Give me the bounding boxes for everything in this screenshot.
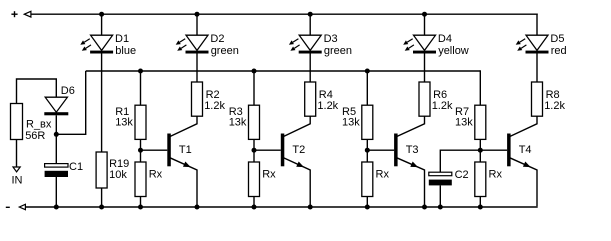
LED D3 (green) — [289, 35, 322, 53]
wire R5 to Rx — [366, 139, 368, 162]
resistor R19 — [96, 152, 107, 188]
wire mid rail to R5 — [366, 71, 368, 105]
wire R_vx top to D6 anode — [17, 79, 57, 104]
svg-text:D5: D5 — [550, 33, 564, 45]
wire bias node to mid rail — [56, 71, 85, 134]
svg-text:1.2k: 1.2k — [204, 100, 225, 112]
wire Rx to bottom rail — [366, 197, 368, 208]
svg-text:T2: T2 — [292, 144, 305, 156]
wire top rail to D3 — [309, 14, 311, 35]
resistor R4 1.2k — [305, 82, 316, 116]
LED D1 (blue) — [80, 35, 113, 53]
terminal - (negative supply) — [6, 204, 26, 209]
junction mid rail / R3 — [252, 69, 257, 74]
resistor R8 1.2k — [532, 82, 543, 116]
terminal IN — [13, 167, 20, 172]
wire R7 to Rx — [479, 139, 481, 162]
transistor T4 (NPN) — [507, 116, 537, 206]
junction mid rail / R5 — [365, 69, 370, 74]
svg-text:red: red — [551, 45, 567, 57]
node base divider T3 — [365, 148, 370, 153]
svg-text:13k: 13k — [229, 117, 247, 129]
wire R8 to D5 cathode — [536, 54, 538, 83]
transistor T1 (NPN) — [167, 116, 197, 207]
svg-text:D6: D6 — [61, 85, 75, 97]
wire R3 to Rx — [253, 139, 255, 162]
wire base node to T2 — [254, 149, 281, 151]
junction C2/bottom rail — [438, 205, 443, 210]
wire mid rail to R3 — [253, 71, 255, 105]
LED D2 (green) — [176, 35, 209, 53]
svg-text:T4: T4 — [519, 144, 532, 156]
transistor T3 (NPN) — [394, 116, 424, 207]
svg-text:D1: D1 — [115, 33, 129, 45]
LED D5 (red) — [516, 35, 549, 53]
transistor T2 (NPN) — [281, 116, 310, 207]
wire top rail to D1 — [101, 14, 103, 35]
wire R19 to bottom rail — [101, 188, 103, 207]
svg-text:blue: blue — [115, 45, 136, 57]
svg-text:T1: T1 — [179, 144, 192, 156]
svg-text:T3: T3 — [406, 144, 419, 156]
wire stage-4 base node to C2 — [440, 150, 480, 172]
resistor R6 1.2k — [419, 82, 430, 116]
resistor R7 13k — [475, 105, 486, 139]
junction C1/bottom rail — [54, 205, 59, 210]
top rail (+) — [31, 13, 538, 15]
svg-text:D3: D3 — [324, 33, 338, 45]
junction Rx/bottom rail — [138, 205, 143, 210]
svg-text:Rx: Rx — [262, 168, 276, 180]
svg-text:13k: 13k — [115, 117, 133, 129]
wire mid rail to R1 — [140, 71, 142, 105]
svg-text:1.2k: 1.2k — [432, 100, 453, 112]
svg-text:Rx: Rx — [149, 168, 163, 180]
junction top rail / D1 — [99, 12, 104, 17]
wire top rail to D4 — [424, 14, 426, 35]
capacitor C1 — [45, 164, 68, 177]
LED D4 (yellow) — [403, 35, 436, 53]
wire mid rail end down to R7 — [479, 70, 481, 105]
svg-text:IN: IN — [12, 174, 23, 186]
wire C2 to bottom rail — [439, 185, 441, 207]
mid rail (LED return / divider bus) — [86, 70, 481, 72]
node D6/C1/bias junction — [54, 132, 59, 137]
wire R4 to D3 cathode — [309, 54, 311, 83]
resistor R_vx 56R — [11, 104, 23, 140]
svg-text:yellow: yellow — [438, 45, 469, 57]
wire Rx to bottom rail — [253, 197, 255, 208]
junction top rail / D3 — [308, 12, 313, 17]
wire D1 cathode to R19 — [101, 54, 103, 153]
node base divider T1 — [138, 148, 143, 153]
svg-text:green: green — [324, 45, 352, 57]
wire Rx to bottom rail — [140, 197, 142, 208]
junction emitter T2/bottom rail — [308, 205, 313, 210]
junction Rx/bottom rail — [365, 205, 370, 210]
wire top rail to D5 — [536, 14, 538, 36]
resistor Rx (stage 3) — [362, 162, 373, 197]
bottom rail (-) — [25, 206, 537, 208]
wire D6 cathode down to C1 — [55, 115, 57, 163]
svg-text:1.2k: 1.2k — [317, 100, 338, 112]
junction emitter T3/bottom rail — [422, 205, 427, 210]
svg-text:Rx: Rx — [489, 168, 503, 180]
resistor R3 13k — [249, 105, 260, 139]
wire R2 to D2 cathode — [196, 54, 198, 83]
svg-text:green: green — [211, 45, 239, 57]
svg-text:C1: C1 — [69, 161, 83, 173]
resistor R2 1.2k — [192, 82, 203, 116]
wire base node to T3 — [367, 149, 394, 151]
svg-text:13k: 13k — [455, 117, 473, 129]
svg-text:13k: 13k — [342, 117, 360, 129]
wire R_vx bottom to IN — [16, 140, 18, 168]
junction mid rail / R1 — [138, 69, 143, 74]
resistor Rx (stage 2) — [249, 162, 260, 197]
terminal + (positive supply) — [11, 11, 31, 17]
resistor Rx (stage 4) — [475, 162, 486, 197]
wire Rx to bottom rail — [479, 197, 481, 208]
capacitor C2 — [429, 172, 452, 185]
junction R19/bottom rail — [99, 205, 104, 210]
junction top rail / D4 — [422, 12, 427, 17]
wire base node to T4 — [480, 149, 507, 151]
wire top rail to D2 — [196, 14, 198, 35]
resistor R5 13k — [362, 105, 373, 139]
node base divider T4 — [478, 148, 483, 153]
wire R1 to Rx — [140, 139, 142, 162]
svg-text:56R: 56R — [25, 130, 45, 142]
diode D6 — [44, 97, 68, 115]
junction emitter T1/bottom rail — [195, 205, 200, 210]
svg-text:D2: D2 — [210, 33, 224, 45]
svg-text:10k: 10k — [109, 169, 127, 181]
junction Rx/bottom rail — [252, 205, 257, 210]
resistor R1 13k — [135, 105, 146, 139]
svg-text:D4: D4 — [438, 33, 452, 45]
node base divider T2 — [252, 148, 257, 153]
svg-text:Rx: Rx — [376, 168, 390, 180]
svg-text:1.2k: 1.2k — [544, 100, 565, 112]
wire R6 to D4 cathode — [424, 54, 426, 83]
resistor Rx (stage 1) — [135, 162, 146, 197]
junction Rx/bottom rail — [478, 205, 483, 210]
svg-text:R_вх: R_вх — [26, 119, 52, 131]
junction top rail / D2 — [195, 12, 200, 17]
svg-text:C2: C2 — [455, 169, 469, 181]
wire C1 to bottom rail — [55, 177, 57, 207]
wire base node to T1 — [141, 149, 168, 151]
